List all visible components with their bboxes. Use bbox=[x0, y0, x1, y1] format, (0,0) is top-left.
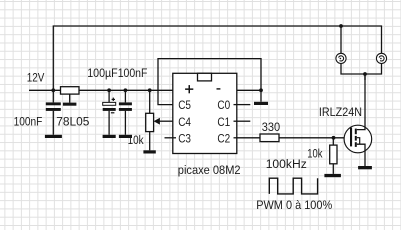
capacitor C2 minus sign bbox=[111, 112, 115, 113]
wire C5 to ground net bbox=[158, 59, 261, 105]
MOSFET channel dash 3 bbox=[355, 142, 357, 147]
IC U1 picaxe 08M2 body bbox=[173, 73, 237, 153]
svg-text:C5: C5 bbox=[178, 98, 191, 112]
resistor R330 body bbox=[260, 134, 279, 142]
junction node rail-cap3 bbox=[124, 88, 128, 92]
svg-text:78L05: 78L05 bbox=[56, 114, 89, 128]
pin C1 stub bbox=[237, 120, 251, 122]
MOSFET source arm bbox=[357, 144, 365, 166]
lamp P1 bbox=[336, 53, 346, 63]
wire pot wiper to C4 bbox=[160, 120, 173, 122]
MOSFET channel dash 2 bbox=[355, 136, 357, 141]
wire drain node stub bbox=[364, 74, 366, 80]
wire top rail 12V to lamps bbox=[53, 26, 381, 90]
ground IC minus bbox=[254, 102, 268, 105]
wire pot top bbox=[149, 90, 151, 113]
pin C0 inner segment bbox=[234, 104, 237, 106]
wire lamps bottom to drain node bbox=[341, 64, 382, 75]
resistor 10k gate pulldown body bbox=[330, 145, 337, 164]
ground cap3 bbox=[119, 135, 132, 138]
junction node rail-cap2 bbox=[107, 88, 111, 92]
wire cap1 stems bbox=[52, 90, 54, 102]
lamp P2 bbox=[376, 53, 386, 63]
pin C0 stub bbox=[237, 104, 251, 106]
PWM waveform bbox=[269, 178, 317, 194]
svg-text:PWM 0 à 100%: PWM 0 à 100% bbox=[256, 198, 332, 212]
wire pot bottom to ground bbox=[149, 132, 151, 151]
junction node drain bbox=[363, 72, 367, 76]
ground cap2 bbox=[103, 135, 116, 138]
svg-text:picaxe 08M2: picaxe 08M2 bbox=[178, 163, 241, 177]
capacitor C3 100nF plates bbox=[119, 102, 132, 105]
capacitor C2 100uF plates polarized bbox=[103, 102, 116, 105]
pin C1 inner segment bbox=[234, 120, 237, 122]
IC notch bbox=[198, 73, 212, 81]
MOSFET body arm bbox=[357, 138, 360, 145]
junction node minus-ground bbox=[259, 88, 263, 92]
svg-text:100µF: 100µF bbox=[87, 66, 118, 80]
MOSFET channel dash 1 bbox=[355, 129, 357, 135]
capacitor C1 100nF plates bbox=[46, 102, 61, 105]
wire 10k pulldown stems bbox=[332, 138, 334, 145]
ground potentiometer bbox=[143, 150, 155, 153]
ground cap1 bbox=[45, 135, 62, 138]
IC minus sign bbox=[217, 88, 221, 89]
svg-text:C4: C4 bbox=[178, 115, 191, 129]
wire regulator ground pin bbox=[69, 94, 71, 103]
svg-text:10k: 10k bbox=[307, 146, 323, 160]
MOSFET gate bar bbox=[350, 128, 352, 147]
svg-text:100nF: 100nF bbox=[118, 66, 148, 80]
wire cap3 stems bbox=[124, 90, 126, 102]
svg-text:330: 330 bbox=[262, 120, 281, 134]
svg-text:IRLZ24N: IRLZ24N bbox=[319, 105, 362, 119]
wire C2 to gate bbox=[237, 137, 351, 139]
pin C3 inner segment bbox=[173, 137, 176, 139]
wire 12V rail left bbox=[29, 89, 173, 91]
MOSFET drain arm bbox=[357, 74, 365, 130]
regulator U2 78L05 body bbox=[61, 87, 80, 94]
junction node top rail lamp1 bbox=[339, 24, 343, 28]
ground regulator bbox=[63, 103, 77, 106]
ground 10k pulldown bbox=[324, 174, 341, 177]
capacitor C2 plus sign bbox=[112, 99, 115, 100]
svg-text:100kHz: 100kHz bbox=[266, 157, 307, 171]
svg-text:10k: 10k bbox=[128, 133, 145, 147]
svg-text:C2: C2 bbox=[217, 131, 230, 145]
svg-text:100nF: 100nF bbox=[14, 114, 43, 128]
junction node rail-cap1 bbox=[51, 88, 55, 92]
MOSFET Q1 IRLZ24N circle bbox=[344, 125, 372, 153]
wire lamp1 drop bbox=[340, 26, 342, 53]
potentiometer wiper arrow bbox=[154, 118, 160, 125]
svg-text:12V: 12V bbox=[27, 71, 45, 85]
svg-text:C1: C1 bbox=[217, 115, 230, 129]
ground MOSFET source bbox=[358, 166, 372, 169]
potentiometer 10k body bbox=[146, 113, 154, 131]
svg-text:C3: C3 bbox=[178, 131, 191, 145]
wire cap2 stems bbox=[108, 90, 110, 102]
junction node rail-pot bbox=[148, 88, 152, 92]
svg-text:C0: C0 bbox=[217, 98, 230, 112]
junction node gate bbox=[332, 136, 336, 140]
IC plus sign bbox=[185, 88, 193, 90]
wire minus pin to ground bbox=[237, 90, 261, 102]
pin C2 inner segment bbox=[234, 137, 237, 139]
pin C3 stub bbox=[165, 137, 173, 139]
